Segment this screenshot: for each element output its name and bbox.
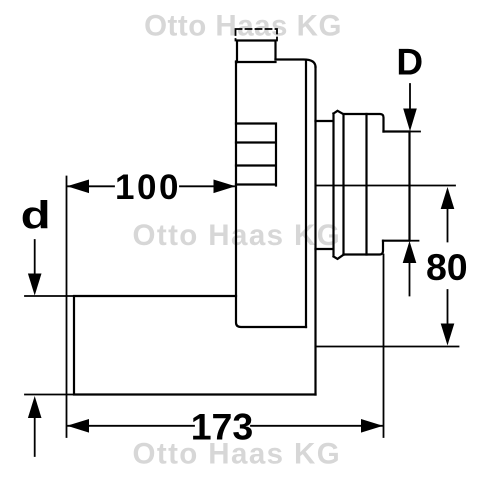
dim line 100 xyxy=(68,185,234,187)
flange right edge xyxy=(314,67,316,395)
D upper extension xyxy=(410,131,421,133)
svg-text:173: 173 xyxy=(191,406,254,448)
arrow d top xyxy=(28,274,42,296)
flange top edge and corner xyxy=(276,60,316,68)
spigot xyxy=(383,132,410,241)
d lower extension xyxy=(25,394,74,396)
extension line left (100/173) xyxy=(66,177,68,438)
arrow 173 left xyxy=(67,419,89,433)
d upper extension xyxy=(25,295,74,297)
extension line right (173) xyxy=(383,255,385,438)
80 lower extension xyxy=(316,346,459,348)
svg-text:D: D xyxy=(396,41,423,82)
hidden dashed connector cap xyxy=(236,29,278,41)
flange internal vertical xyxy=(305,61,307,327)
svg-text:Otto Haas KG: Otto Haas KG xyxy=(144,10,342,43)
arrow D bottom xyxy=(403,241,417,263)
svg-text:d: d xyxy=(21,195,51,238)
arrow 80 top xyxy=(441,187,455,209)
main cylinder xyxy=(344,114,384,255)
d arrow lines xyxy=(34,240,36,456)
D arrow lines xyxy=(409,84,412,296)
arrow 100 left xyxy=(67,180,89,194)
dim line 173 xyxy=(68,425,382,427)
centerline / 80 upper extension xyxy=(316,185,455,187)
arrow 173 right xyxy=(361,419,383,433)
cylinder internal vertical xyxy=(365,114,367,255)
arrow 100 right xyxy=(214,180,236,194)
arrow d bottom xyxy=(28,396,42,418)
flange top ledge xyxy=(236,61,276,63)
neck edges xyxy=(316,121,334,249)
svg-text:100: 100 xyxy=(115,168,181,207)
80 dim lines xyxy=(447,209,449,325)
ridge band xyxy=(334,111,344,259)
arrow D top xyxy=(403,109,417,132)
arrow 80 bottom xyxy=(441,324,455,346)
svg-text:80: 80 xyxy=(426,246,468,288)
terminal tab xyxy=(237,41,276,63)
D lower extension xyxy=(410,240,419,242)
lower housing xyxy=(74,296,316,395)
connector block rungs xyxy=(236,124,276,186)
flange body outline xyxy=(236,62,306,328)
